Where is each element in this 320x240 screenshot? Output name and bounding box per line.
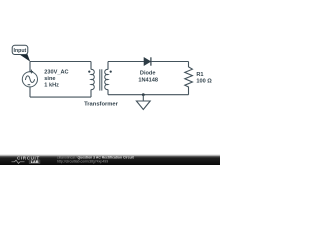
transformer T1 primary winding [88, 62, 94, 98]
node Input flag [12, 45, 30, 61]
svg-text:http://circuitlab.com/c8tg74xp: http://circuitlab.com/c8tg74xp499 [57, 160, 108, 164]
wire secondary bottom [108, 94, 189, 96]
label 230V_AC sine 1 kHz [44, 69, 68, 88]
junction ground node [142, 93, 145, 96]
footer bar [0, 154, 220, 165]
footer title text [57, 155, 135, 163]
wire input corner to source top [29, 62, 31, 72]
svg-text:Diode: Diode [140, 70, 156, 76]
footer CircuitLab logo [12, 156, 41, 165]
resistor R1 [185, 62, 193, 95]
wire primary top [30, 61, 91, 63]
wire secondary top left [108, 61, 144, 63]
svg-text:230V_AC: 230V_AC [44, 69, 68, 75]
wire source bottom [29, 87, 31, 97]
svg-text:R1: R1 [196, 72, 203, 78]
svg-text:sine: sine [44, 76, 55, 82]
ground [136, 95, 150, 110]
label R1 100 Ohm [196, 72, 212, 85]
wire secondary top right [151, 61, 189, 63]
diode D1 [144, 57, 151, 65]
voltage source V1 230V_AC sine [22, 70, 37, 87]
svg-text:1 kHz: 1 kHz [44, 82, 59, 88]
svg-text:1N4148: 1N4148 [138, 77, 158, 83]
transformer T1 core [100, 69, 102, 90]
svg-text:Transformer: Transformer [84, 101, 119, 107]
svg-text:LAB: LAB [31, 160, 39, 164]
transformer T1 secondary winding [105, 62, 112, 95]
svg-text:100 Ω: 100 Ω [196, 79, 212, 85]
wire primary bottom [30, 96, 91, 98]
svg-text:Input: Input [14, 48, 27, 54]
label Diode 1N4148 [138, 70, 158, 83]
